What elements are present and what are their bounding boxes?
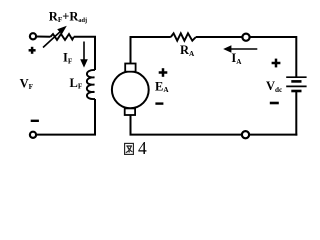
- svg-text:4: 4: [138, 138, 147, 158]
- wire: [196, 36, 242, 38]
- wire: [130, 134, 242, 136]
- label plus (Vdc positive): [272, 59, 281, 68]
- wire: [295, 36, 297, 77]
- label minus (Vdc negative): [270, 102, 279, 105]
- label plus (VF positive): [29, 47, 36, 54]
- wire: [250, 134, 298, 136]
- resistor RA: [171, 33, 196, 40]
- motor armature EA: [112, 64, 149, 116]
- label IA: [231, 51, 242, 66]
- label RA: [180, 43, 195, 58]
- inductor LF: [87, 70, 95, 99]
- wire: [36, 99, 95, 135]
- wire: [250, 36, 296, 38]
- wire: [130, 37, 132, 63]
- current arrow IF: [80, 42, 88, 68]
- label plus (EA positive): [159, 68, 168, 77]
- wire: [130, 36, 171, 38]
- node (top): [242, 34, 249, 41]
- label LF: [70, 76, 83, 91]
- label minus (EA negative): [155, 102, 163, 104]
- wire: [74, 37, 95, 70]
- label IF: [63, 51, 73, 66]
- wire: [295, 91, 297, 136]
- terminal bottom-left: [30, 132, 36, 138]
- label Vdc: [266, 79, 283, 94]
- label VF: [20, 76, 34, 91]
- label EA: [155, 79, 169, 94]
- caption figure number 4: [138, 138, 147, 158]
- current arrow IA: [223, 45, 257, 53]
- wire: [130, 115, 132, 134]
- resistor RF+Radj (variable): [51, 34, 74, 40]
- caption 图 (figure) glyph: [125, 143, 134, 154]
- wire: [36, 36, 51, 38]
- label RF+Radj: [49, 9, 87, 24]
- label minus (VF negative): [31, 120, 39, 122]
- terminal top-left: [30, 33, 36, 39]
- adjustment arrow of RF+Radj: [43, 26, 67, 48]
- battery Vdc: [286, 77, 306, 91]
- node (bottom): [242, 131, 249, 138]
